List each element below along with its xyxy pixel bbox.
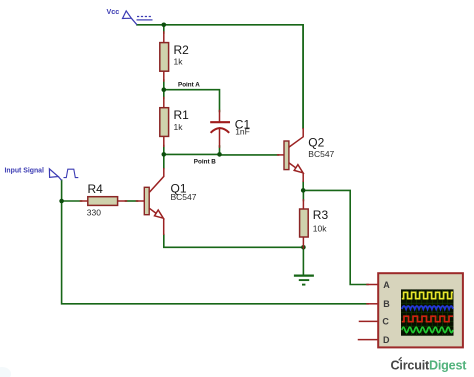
svg-text:B: B	[383, 299, 390, 309]
svg-text:R3: R3	[313, 208, 329, 222]
svg-text:CircuitDigest: CircuitDigest	[391, 358, 468, 372]
svg-text:C: C	[382, 316, 389, 326]
svg-text:1nF: 1nF	[235, 126, 250, 136]
svg-text:Point B: Point B	[194, 159, 216, 166]
svg-text:R1: R1	[174, 108, 190, 122]
svg-text:A: A	[383, 280, 390, 290]
svg-text:1k: 1k	[174, 56, 184, 66]
svg-text:10k: 10k	[313, 223, 327, 233]
svg-text:BC547: BC547	[308, 149, 334, 159]
svg-text:330: 330	[87, 208, 101, 218]
svg-text:R2: R2	[174, 43, 190, 57]
svg-text:D: D	[383, 335, 390, 345]
svg-text:Vcc: Vcc	[107, 7, 120, 16]
svg-text:R4: R4	[88, 182, 104, 196]
svg-text:1k: 1k	[174, 122, 184, 132]
svg-text:Input Signal: Input Signal	[5, 168, 45, 175]
svg-text:Point A: Point A	[178, 82, 200, 89]
svg-text:BC547: BC547	[171, 192, 197, 202]
svg-text:Q2: Q2	[308, 136, 324, 150]
